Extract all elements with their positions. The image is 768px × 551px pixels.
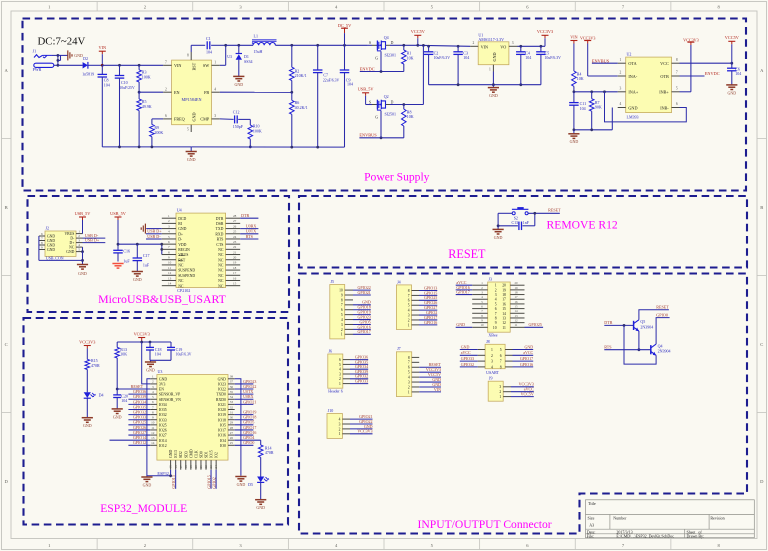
svg-text:Q4: Q4	[384, 35, 389, 40]
svg-text:GPIO17: GPIO17	[456, 289, 469, 294]
svg-text:BST: BST	[191, 62, 196, 70]
wire 5V rail drop to Q2 drain	[422, 45, 424, 104]
net label GPIO25 at J4 pin 6	[419, 299, 437, 301]
svg-text:CP2102: CP2102	[177, 288, 190, 293]
net label GPIO23 at J5 pin 4	[353, 319, 371, 321]
svg-text:NC: NC	[218, 258, 224, 262]
svg-text:RTS: RTS	[217, 238, 224, 242]
svg-text:8: 8	[341, 298, 343, 302]
svg-text:4: 4	[495, 298, 497, 302]
net label aVCC at J3 pin 1	[456, 284, 473, 286]
net label GND at J7 pin 2	[419, 386, 441, 388]
wire USB_5V to U4 VDD	[117, 243, 120, 246]
RESET section dashed box	[299, 196, 747, 268]
wire S2 bottom bus	[498, 225, 518, 227]
net label GPIO15 at U3 bottom	[210, 470, 212, 489]
wire INA+ bus	[574, 91, 618, 93]
svg-text:C12: C12	[233, 110, 240, 115]
svg-text:IO5: IO5	[220, 423, 226, 427]
svg-text:1: 1	[495, 284, 497, 288]
svg-text:J2: J2	[46, 225, 50, 230]
svg-text:4: 4	[620, 102, 622, 106]
svg-text:VCC5V: VCC5V	[725, 35, 740, 40]
net label aVCC at J8 pin 2	[460, 354, 478, 356]
net label VCC5V at J9 pin 1	[511, 396, 534, 398]
svg-text:Q2: Q2	[384, 94, 389, 99]
wire J2 NC to GND pin	[82, 247, 84, 252]
transistor Q4 2N3904 lower	[650, 345, 652, 354]
svg-text:IO2: IO2	[215, 452, 219, 458]
svg-text:GND: GND	[187, 157, 196, 162]
svg-text:17: 17	[233, 271, 237, 275]
resistor R6 40.2K/1%	[291, 92, 293, 100]
ground symbol under C20	[112, 408, 123, 410]
svg-text:19: 19	[189, 465, 193, 469]
wire INB- loop to INA+	[605, 92, 687, 122]
svg-text:C19: C19	[176, 347, 183, 352]
svg-text:GPIO2: GPIO2	[211, 477, 216, 488]
svg-text:EN: EN	[159, 388, 164, 392]
svg-text:GPIO32: GPIO32	[461, 362, 474, 367]
svg-text:IO34: IO34	[159, 403, 167, 407]
resistor R14 470R	[258, 445, 263, 457]
svg-text:D2: D2	[83, 56, 88, 61]
net label GND at J8 pin 5	[513, 349, 534, 351]
led D4	[84, 392, 91, 398]
svg-text:L1: L1	[254, 33, 258, 38]
svg-text:11: 11	[515, 323, 518, 327]
svg-text:23: 23	[209, 465, 213, 469]
svg-text:C13: C13	[512, 221, 519, 225]
svg-text:16: 16	[502, 302, 506, 306]
net label DTR at U4	[240, 217, 258, 219]
svg-text:6: 6	[676, 102, 678, 106]
svg-text:GND: GND	[113, 414, 122, 419]
overline NC pin10	[178, 260, 182, 262]
net label GPIO32 at J8 pin 4	[460, 366, 478, 368]
svg-text:ENVBUS: ENVBUS	[359, 133, 377, 138]
capacitor C1 104	[206, 41, 208, 49]
svg-text:C10: C10	[121, 80, 128, 85]
svg-text:GND: GND	[78, 271, 87, 276]
svg-text:GND: GND	[494, 235, 503, 240]
svg-text:7: 7	[676, 71, 678, 75]
svg-text:6: 6	[341, 308, 343, 312]
svg-text:EN: EN	[174, 90, 180, 95]
svg-text:28: 28	[230, 426, 234, 430]
capacitor C3 104	[457, 46, 459, 52]
title block row lines	[586, 514, 755, 516]
wire J1 to D2 anode	[58, 64, 83, 66]
svg-text:8: 8	[408, 289, 410, 293]
ESP32 module section dashed box	[24, 318, 289, 525]
svg-text:SUSPEND: SUSPEND	[178, 274, 195, 278]
svg-text:IO15: IO15	[210, 450, 214, 458]
svg-text:20: 20	[233, 256, 237, 260]
svg-text:D: D	[391, 100, 394, 104]
svg-text:ENVDC: ENVDC	[360, 66, 375, 71]
svg-text:GND: GND	[169, 450, 173, 458]
svg-text:3: 3	[499, 385, 501, 389]
connector J2 USB_CON	[45, 231, 76, 256]
net label GPIO16 at J5 pin 2	[353, 328, 371, 330]
svg-text:1: 1	[341, 333, 343, 337]
net label USB D- at J2	[83, 237, 106, 239]
svg-text:16: 16	[174, 465, 178, 469]
svg-text:IO32: IO32	[159, 413, 167, 417]
svg-text:GND: GND	[47, 239, 55, 243]
svg-text:2: 2	[408, 385, 410, 389]
svg-text:D5: D5	[248, 482, 253, 487]
svg-text:10: 10	[480, 323, 484, 327]
svg-text:12: 12	[502, 321, 506, 325]
svg-text:NC: NC	[218, 274, 224, 278]
net label GPIO21 at U3 right	[235, 403, 254, 405]
svg-text:J1: J1	[33, 49, 37, 54]
net label USB D+ at J2	[83, 242, 106, 244]
svg-text:SUSPEND: SUSPEND	[178, 269, 195, 273]
resistor R7 90K	[591, 92, 593, 99]
net label GPIO5 at J5 pin 3	[353, 323, 371, 325]
diode D1 SS34	[238, 45, 240, 53]
Power Supply section dashed box	[23, 19, 747, 191]
wire REGIN VBUS tie	[161, 244, 163, 254]
regulator U1 AMS1117-3.3V	[478, 42, 509, 65]
resistor R15 470R	[85, 359, 90, 369]
svg-text:CMD: CMD	[189, 449, 193, 458]
capacitor C19 10uF/6.3V	[170, 342, 172, 347]
wire vcc bus at ESP32	[117, 341, 171, 343]
net label GPIO5 at U3 right	[235, 424, 254, 426]
svg-text:19: 19	[514, 286, 518, 290]
svg-text:14: 14	[514, 309, 518, 313]
svg-text:GPIO12: GPIO12	[133, 440, 146, 445]
svg-text:NC: NC	[218, 248, 224, 252]
svg-text:1: 1	[78, 230, 80, 234]
ground symbol under ESP32 right	[235, 476, 246, 478]
svg-text:4: 4	[78, 243, 80, 247]
svg-text:NC: NC	[178, 264, 184, 268]
transistor Q5 2N3904	[633, 321, 635, 330]
svg-text:NC: NC	[218, 253, 224, 257]
capacitor C11 104	[573, 92, 575, 103]
net label GPIO13 at J4 pin 8	[419, 290, 437, 292]
resistor R13 10K	[116, 342, 118, 347]
svg-text:13: 13	[151, 436, 155, 440]
svg-text:1: 1	[408, 390, 410, 394]
svg-text:GND: GND	[47, 235, 55, 239]
capacitor C4 104	[520, 46, 522, 52]
wire U3 3V3 pin2 to VCC3V3	[142, 342, 151, 384]
svg-text:27: 27	[230, 431, 234, 435]
wire BST riser to C1	[190, 45, 192, 52]
svg-text:GND: GND	[456, 322, 465, 327]
net label GPIO27 at J4 pin 4	[419, 309, 437, 311]
net label GPIO12 at U3 left	[128, 444, 150, 446]
capacitor C12 150pF	[234, 115, 236, 123]
svg-text:5: 5	[341, 313, 343, 317]
overline RST pin9	[178, 255, 184, 257]
svg-text:4: 4	[339, 368, 341, 372]
svg-text:2: 2	[499, 390, 501, 394]
wire C12 to R10	[238, 118, 250, 120]
svg-text:E:\CMD\: E:\CMD\	[616, 534, 632, 539]
wire U2 GND pin to bus	[611, 108, 613, 130]
svg-text:MP1584EN: MP1584EN	[181, 97, 201, 102]
svg-text:1: 1	[214, 60, 216, 64]
net label GPIO17 at J8 pin 7	[513, 360, 534, 362]
svg-text:104: 104	[121, 398, 127, 403]
svg-text:USB_5V: USB_5V	[75, 211, 92, 216]
svg-text:S2: S2	[514, 216, 518, 220]
svg-text:IO4: IO4	[220, 439, 226, 443]
net label GPIO16 at J4 pin 1	[419, 324, 437, 326]
svg-text:2: 2	[339, 427, 341, 431]
mosfet Q2 SI2301	[372, 104, 377, 106]
svg-text:19: 19	[233, 261, 237, 265]
svg-text:12: 12	[151, 431, 155, 435]
svg-text:9: 9	[341, 293, 343, 297]
svg-text:IO25: IO25	[159, 423, 167, 427]
svg-text:10K: 10K	[577, 76, 584, 81]
net label VCC3V3 at J9 pin 3	[511, 386, 534, 388]
svg-text:GND: GND	[47, 248, 55, 252]
svg-text:VDD: VDD	[178, 243, 186, 247]
svg-text:30: 30	[230, 416, 234, 420]
wire cross couple loop	[624, 325, 656, 364]
ground symbol comparator	[573, 130, 575, 134]
net label GPIO27 at U3 left	[128, 434, 150, 436]
svg-text:GND: GND	[461, 344, 470, 349]
svg-text:2N3904: 2N3904	[658, 349, 671, 354]
capacitor C10 10uF/25V	[119, 65, 121, 75]
resistor R5 49.9K	[137, 99, 142, 111]
net label aVCC at J9 pin 2	[511, 391, 534, 393]
svg-text:27: 27	[233, 219, 237, 223]
svg-text:FB: FB	[204, 90, 209, 95]
svg-text:33: 33	[230, 400, 234, 404]
svg-text:U4: U4	[177, 207, 182, 212]
net label ENVDC at OTB	[680, 75, 705, 77]
ground symbol under MP1584	[190, 147, 192, 152]
svg-text:VBUS: VBUS	[178, 253, 188, 257]
svg-text:SD0: SD0	[199, 451, 203, 458]
svg-text:104: 104	[155, 352, 161, 357]
wire FREQ to R9	[152, 118, 163, 120]
svg-text:22: 22	[233, 245, 237, 249]
title block column lines	[609, 515, 611, 530]
connector J3 XBee	[488, 282, 511, 332]
svg-text:IO19: IO19	[218, 413, 226, 417]
connector J8 USART	[485, 344, 505, 368]
svg-text:5: 5	[676, 87, 678, 91]
capacitor C20 104	[116, 389, 118, 395]
net label GPIO14 at U3 left	[110, 439, 151, 441]
svg-text:OTA: OTA	[628, 61, 636, 66]
svg-text:28: 28	[233, 214, 237, 218]
svg-text:MicroUSB&USB_USART: MicroUSB&USB_USART	[98, 292, 227, 306]
svg-text:18: 18	[502, 293, 506, 297]
svg-text:Header 6: Header 6	[328, 389, 343, 394]
wire Q2 gate down	[380, 111, 382, 138]
svg-text:15: 15	[169, 465, 173, 469]
svg-text:GPIO16: GPIO16	[424, 320, 437, 325]
svg-text:40.2K/1: 40.2K/1	[295, 105, 308, 110]
net label VCC3V3 at J7 pin 5	[419, 371, 441, 373]
net label GPIO36 at J6 pin 6	[350, 359, 368, 361]
svg-text:RESET: RESET	[656, 305, 669, 310]
svg-text:1uF: 1uF	[143, 262, 150, 267]
svg-text:6: 6	[408, 366, 410, 370]
net label GPIO2 at U3 bottom	[215, 470, 217, 489]
svg-text:31: 31	[230, 410, 234, 414]
net label GPIO22 at J5 pin 10	[353, 289, 371, 291]
svg-text:15: 15	[233, 281, 237, 285]
svg-text:C16: C16	[123, 248, 130, 253]
svg-text:4: 4	[408, 376, 410, 380]
svg-text:3: 3	[491, 360, 493, 364]
svg-text:IO27: IO27	[159, 434, 167, 438]
svg-text:104: 104	[735, 71, 741, 76]
svg-text:3: 3	[620, 87, 622, 91]
svg-text:S: S	[369, 100, 371, 104]
svg-text:10: 10	[168, 261, 172, 265]
ground symbol under C6	[726, 84, 737, 86]
net label GPIO17 at J5 pin 1	[353, 333, 371, 335]
svg-text:GND: GND	[570, 139, 579, 144]
net label GPIO17 at J4 pin 2	[419, 319, 437, 321]
svg-text:USB D+: USB D+	[85, 238, 100, 243]
net label U0RX at U3 right	[235, 398, 254, 400]
svg-text:TXD: TXD	[216, 227, 224, 231]
net label GND at J5 pin 7	[353, 304, 371, 306]
wire U3 GND pin1 to ground	[147, 379, 171, 476]
svg-text:G: G	[375, 116, 378, 120]
net label GND at J7 pin 3	[419, 381, 441, 383]
svg-text:GPIO0: GPIO0	[656, 312, 668, 317]
led D5	[257, 477, 264, 483]
svg-text:5: 5	[500, 348, 502, 352]
INPUT/OUTPUT section dashed box	[299, 274, 747, 534]
svg-text:VIN: VIN	[570, 34, 577, 39]
svg-text:VCC3V3: VCC3V3	[357, 429, 372, 434]
svg-text:49.9K: 49.9K	[142, 104, 152, 109]
svg-text:22uF/6.3V: 22uF/6.3V	[323, 78, 340, 82]
comparator U2 LM393	[626, 57, 672, 113]
svg-text:NC: NC	[218, 264, 224, 268]
svg-text:TXD0: TXD0	[216, 393, 226, 397]
svg-text:3: 3	[495, 293, 497, 297]
wire J1 pins junction	[52, 54, 58, 56]
net label U0RX at U4	[240, 228, 258, 230]
svg-text:U3: U3	[227, 55, 232, 59]
net label GPIO25 at J3 pin 11	[525, 326, 544, 328]
svg-text:18: 18	[233, 266, 237, 270]
svg-text:RXD: RXD	[215, 232, 223, 236]
svg-text:INPUT/OUTPUT Connector: INPUT/OUTPUT Connector	[418, 518, 552, 531]
wire SW pin riser	[220, 64, 226, 66]
output ground bus	[429, 84, 541, 86]
ground symbol under U1	[492, 85, 494, 88]
regulator U5 MP1584EN	[172, 60, 212, 125]
svg-text:16: 16	[233, 276, 237, 280]
svg-text:1n5819: 1n5819	[82, 72, 94, 77]
svg-text:15uH: 15uH	[254, 49, 263, 54]
svg-text:J8: J8	[486, 339, 490, 344]
svg-text:IO17: IO17	[218, 429, 226, 433]
net label GPIO16 at J3 pin 2	[456, 289, 473, 291]
svg-text:12: 12	[514, 319, 518, 323]
svg-text:20: 20	[514, 281, 518, 285]
svg-text:CLK: CLK	[194, 450, 198, 458]
svg-text:C7: C7	[323, 73, 328, 78]
svg-text:24: 24	[233, 235, 237, 239]
svg-text:14: 14	[151, 441, 155, 445]
svg-text:B: B	[5, 205, 8, 210]
usb bridge U4 CP2102	[176, 213, 226, 287]
svg-text:104: 104	[206, 50, 212, 55]
svg-text:25: 25	[233, 230, 237, 234]
svg-text:Drawn By:: Drawn By:	[687, 534, 705, 539]
net label USB D+ at U4	[146, 233, 162, 235]
svg-text:1: 1	[499, 395, 501, 399]
connector J4	[396, 285, 411, 330]
svg-text:104: 104	[347, 82, 353, 87]
svg-text:DC_5V: DC_5V	[338, 23, 352, 28]
svg-text:NC: NC	[218, 269, 224, 273]
net label GPIO2 at J4 pin 3	[419, 314, 437, 316]
svg-text:GPIO17: GPIO17	[520, 356, 533, 361]
net label GPIO19 at J5 pin 5	[353, 314, 371, 316]
net label U0TX at U3 right	[235, 393, 254, 395]
svg-text:6: 6	[495, 307, 497, 311]
svg-text:10: 10	[151, 421, 155, 425]
svg-text:aVCC: aVCC	[523, 350, 533, 355]
svg-text:26: 26	[233, 224, 237, 228]
net label GPIO39 at J6 pin 3	[350, 373, 368, 375]
wire U1 GND to ground	[492, 72, 494, 85]
ground bus to divider bottom	[191, 146, 344, 148]
svg-text:7: 7	[408, 294, 410, 298]
svg-text:14: 14	[168, 281, 172, 285]
svg-text:3V3: 3V3	[159, 383, 166, 387]
svg-text:34: 34	[230, 395, 234, 399]
svg-text:8: 8	[676, 58, 678, 62]
svg-text:C1: C1	[206, 36, 211, 41]
svg-text:J9: J9	[489, 376, 493, 381]
svg-text:23: 23	[233, 240, 237, 244]
svg-text:OTB: OTB	[660, 74, 669, 79]
svg-text:GND: GND	[256, 505, 265, 510]
svg-text:D4: D4	[99, 392, 104, 397]
svg-text:3: 3	[78, 239, 80, 243]
svg-text:C: C	[760, 342, 763, 347]
wire J1 top contact to ground	[58, 54, 68, 56]
svg-text:21: 21	[233, 250, 237, 254]
net label GPIO26 at U3 left	[128, 429, 150, 431]
switch S2	[512, 208, 529, 210]
wire VCC pin8 to VCC5V	[680, 62, 732, 64]
wire rail to U1 VIN	[418, 45, 470, 46]
connector J9	[488, 381, 503, 401]
comparator ground bus	[574, 129, 612, 131]
ground symbol under ESP32 left	[146, 476, 148, 477]
svg-text:150pF: 150pF	[233, 124, 244, 129]
svg-text:2: 2	[339, 377, 341, 381]
svg-text:13: 13	[514, 314, 518, 318]
svg-text:24: 24	[214, 465, 218, 469]
net label GPIO21 at J10 pin 4	[350, 418, 373, 420]
